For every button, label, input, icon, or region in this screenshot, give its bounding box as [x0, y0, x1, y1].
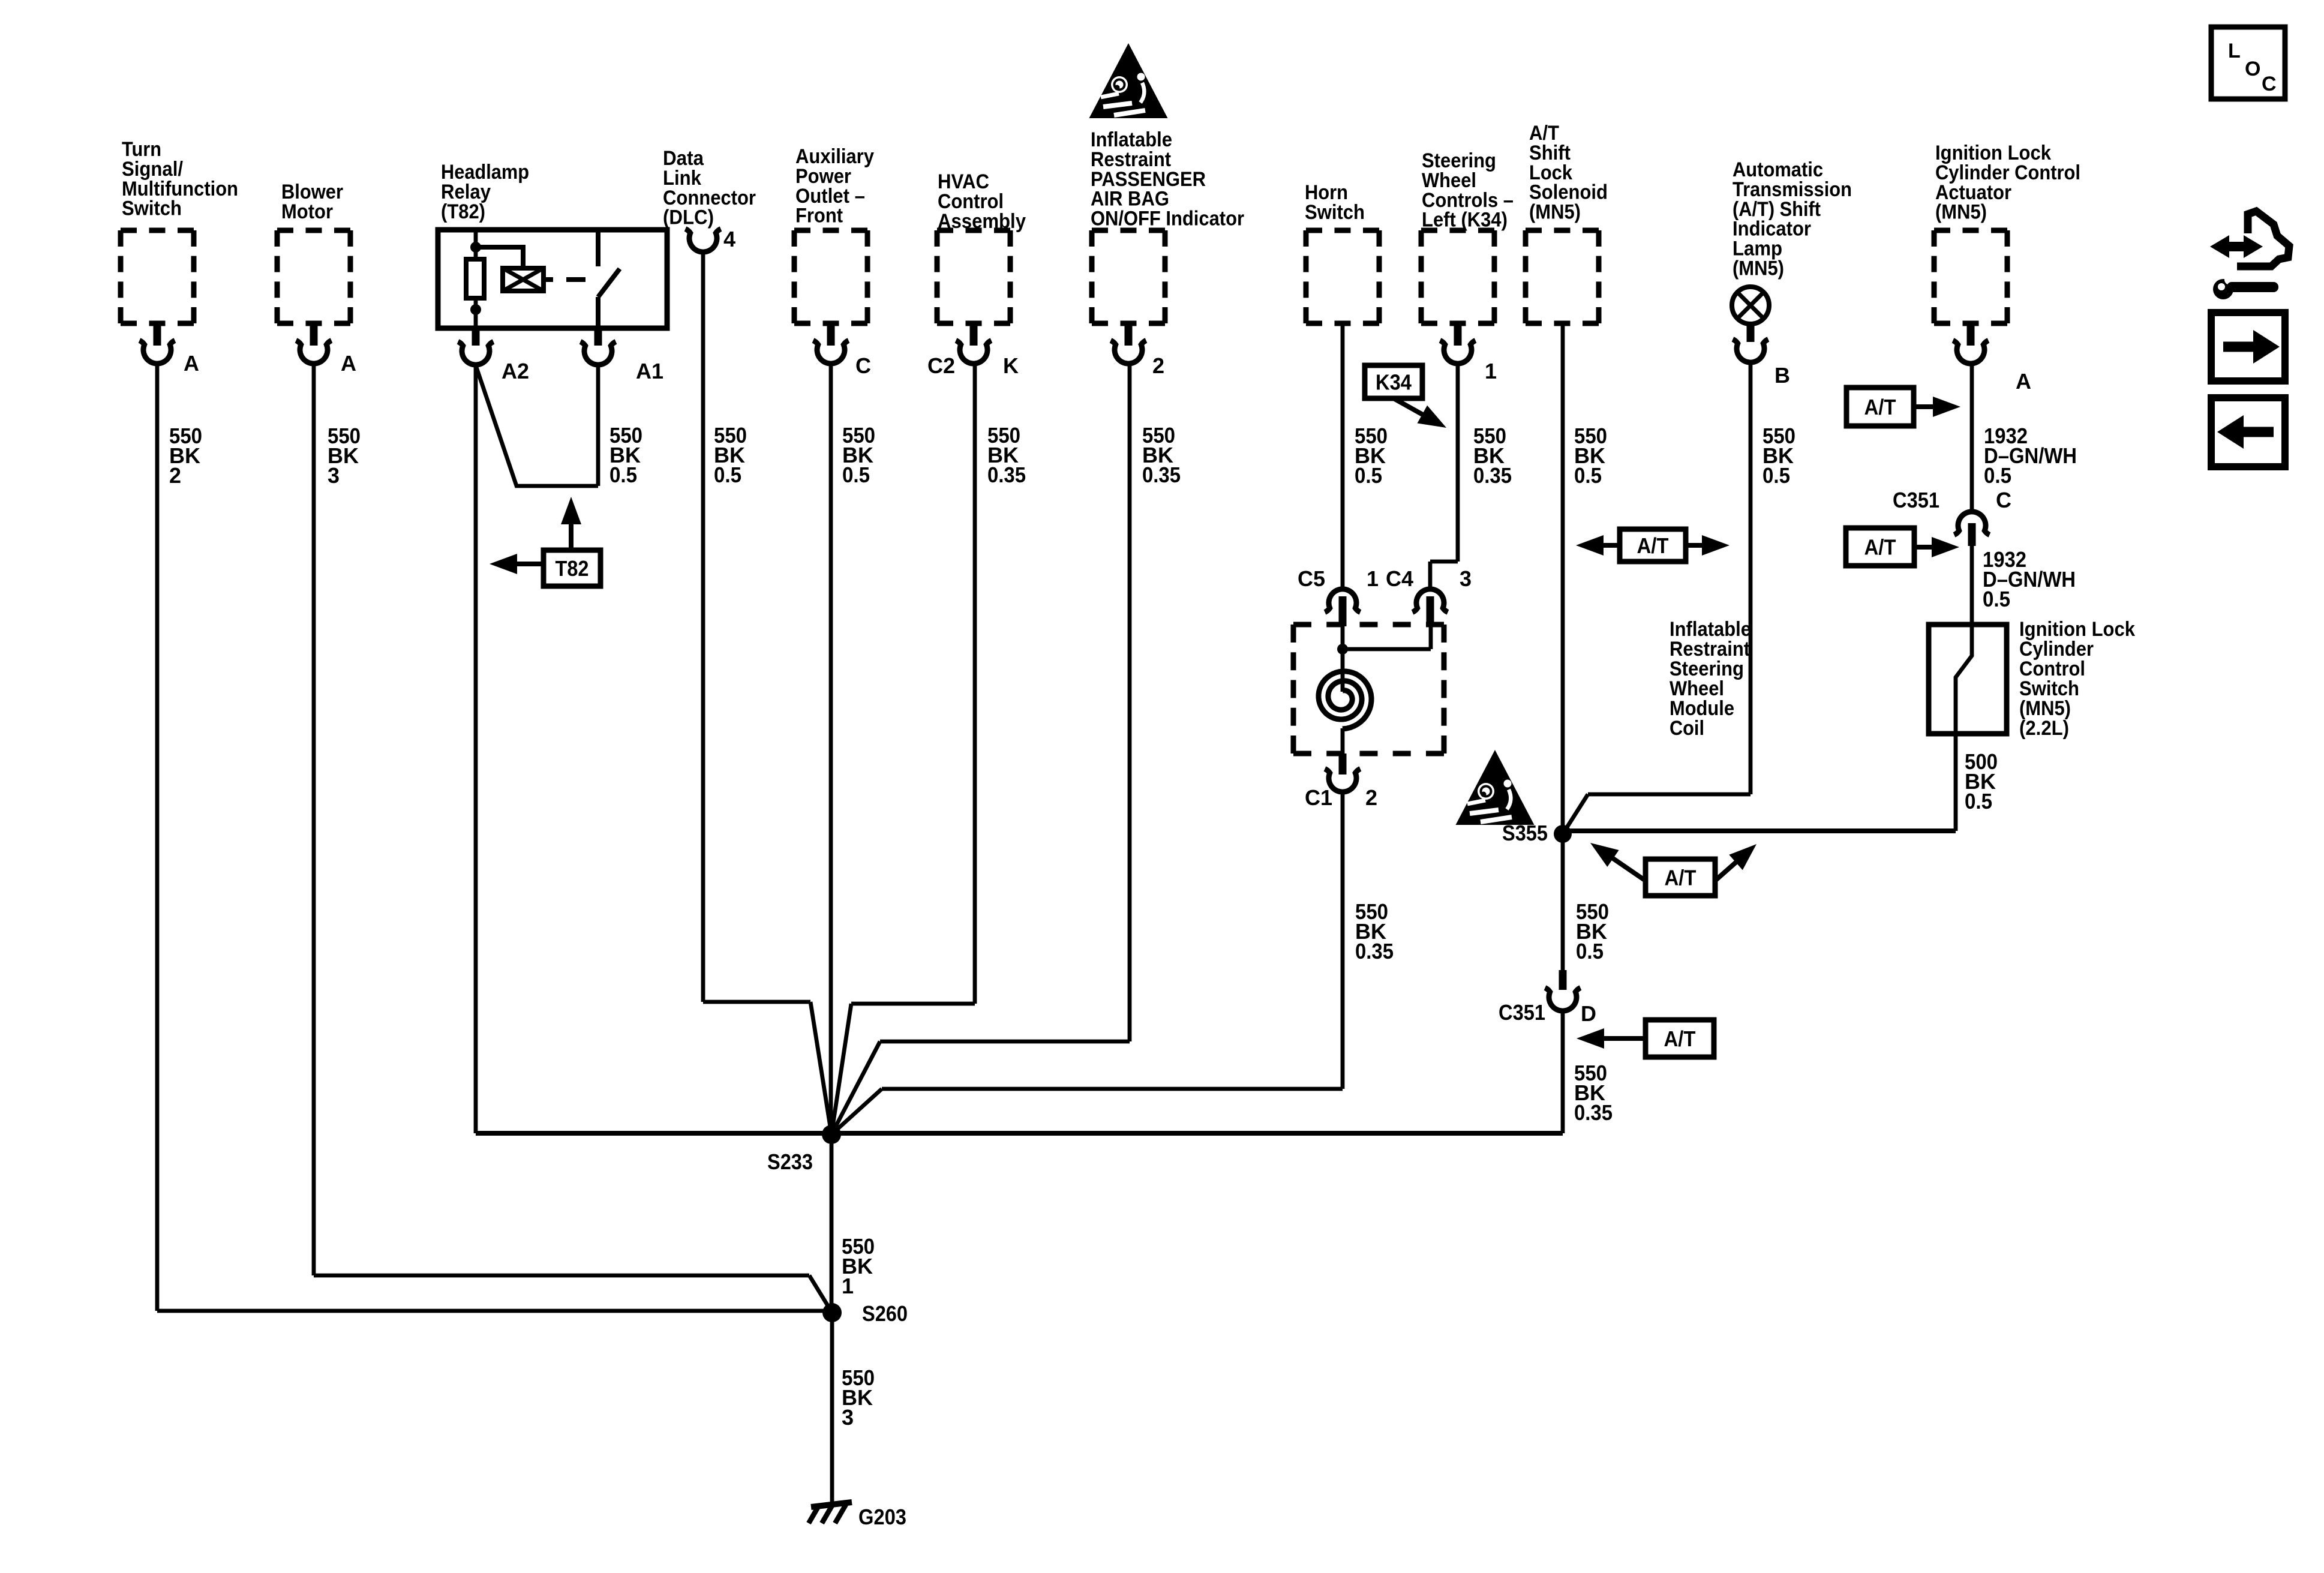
svg-text:A2: A2 [502, 359, 529, 383]
svg-text:1: 1 [842, 1274, 854, 1298]
svg-text:(MN5): (MN5) [1935, 201, 1987, 224]
svg-text:S260: S260 [862, 1301, 908, 1326]
svg-text:S233: S233 [767, 1149, 813, 1174]
svg-text:0.5: 0.5 [1355, 463, 1382, 488]
svg-text:A/T: A/T [1664, 1026, 1696, 1051]
svg-text:(T82): (T82) [441, 200, 485, 223]
svg-text:0.5: 0.5 [1576, 939, 1604, 963]
svg-text:Front: Front [795, 205, 843, 227]
svg-text:3: 3 [328, 463, 340, 488]
svg-text:0.5: 0.5 [1984, 463, 2011, 488]
svg-text:(2.2L): (2.2L) [2019, 717, 2069, 740]
svg-text:Left (K34): Left (K34) [1422, 209, 1508, 232]
svg-text:O: O [2245, 58, 2260, 80]
svg-text:0.35: 0.35 [1355, 939, 1394, 963]
svg-text:T82: T82 [556, 556, 589, 581]
svg-text:0.5: 0.5 [609, 463, 637, 487]
svg-text:Switch: Switch [1305, 201, 1365, 224]
svg-text:C351: C351 [1499, 1000, 1545, 1025]
svg-text:0.5: 0.5 [1983, 587, 2010, 611]
svg-text:0.35: 0.35 [1142, 463, 1181, 487]
svg-text:C2: C2 [927, 353, 955, 378]
svg-text:D: D [1581, 1001, 1596, 1026]
svg-text:1: 1 [1485, 359, 1497, 383]
svg-text:A/T: A/T [1637, 533, 1669, 558]
svg-text:A: A [341, 351, 356, 376]
svg-text:C: C [2262, 73, 2277, 95]
svg-text:(DLC): (DLC) [663, 206, 714, 229]
svg-text:K: K [1003, 353, 1019, 378]
svg-text:C: C [855, 353, 871, 378]
svg-text:A/T: A/T [1665, 866, 1697, 890]
svg-text:K34: K34 [1376, 370, 1412, 395]
svg-text:4: 4 [723, 227, 735, 251]
svg-text:2: 2 [1152, 353, 1164, 378]
svg-text:0.5: 0.5 [714, 463, 741, 487]
svg-text:Coil: Coil [1670, 717, 1704, 740]
svg-text:A/T: A/T [1864, 535, 1896, 560]
svg-text:B: B [1774, 363, 1790, 388]
svg-text:0.35: 0.35 [1574, 1100, 1613, 1125]
svg-text:C5: C5 [1298, 566, 1325, 591]
svg-text:0.5: 0.5 [1574, 463, 1602, 488]
svg-text:G203: G203 [858, 1505, 906, 1529]
svg-text:Motor: Motor [281, 200, 333, 223]
svg-text:A: A [2016, 369, 2031, 394]
svg-text:1: 1 [1367, 566, 1379, 591]
svg-text:0.35: 0.35 [987, 463, 1026, 487]
svg-text:A1: A1 [636, 359, 663, 383]
svg-text:C4: C4 [1386, 566, 1413, 591]
svg-text:0.5: 0.5 [1965, 789, 1992, 813]
svg-text:L: L [2228, 40, 2241, 62]
svg-text:(MN5): (MN5) [1733, 257, 1784, 280]
svg-text:0.5: 0.5 [1762, 463, 1790, 488]
svg-text:Assembly: Assembly [938, 210, 1026, 233]
svg-text:0.5: 0.5 [842, 463, 870, 487]
svg-text:(MN5): (MN5) [1529, 201, 1581, 224]
svg-text:A: A [184, 351, 199, 376]
svg-text:2: 2 [169, 463, 181, 488]
svg-text:A/T: A/T [1864, 395, 1896, 419]
svg-text:3: 3 [842, 1405, 854, 1430]
svg-text:C351: C351 [1893, 488, 1939, 512]
svg-text:Switch: Switch [122, 197, 182, 220]
svg-text:2: 2 [1365, 785, 1377, 810]
svg-text:3: 3 [1460, 566, 1472, 591]
svg-text:C1: C1 [1305, 785, 1332, 810]
svg-text:0.35: 0.35 [1473, 463, 1512, 488]
svg-text:ON/OFF Indicator: ON/OFF Indicator [1091, 208, 1244, 230]
svg-text:S355: S355 [1502, 821, 1548, 845]
svg-text:C: C [1996, 488, 2011, 512]
